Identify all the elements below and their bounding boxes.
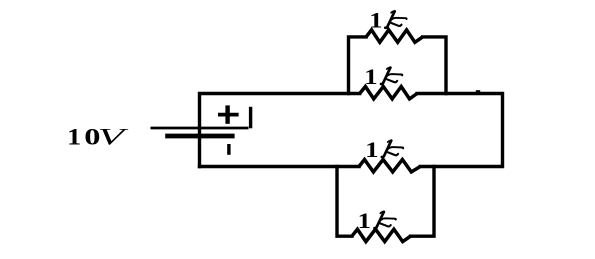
wire: top-right main, right vertical, bottom-right main <box>417 94 502 167</box>
wire: left vertical (battery branch) plus top-left main wire <box>200 94 360 167</box>
svg-text:1: 1 <box>369 8 383 33</box>
resistor R2 zigzag (top main wire, 1k) <box>360 87 417 99</box>
wire: bottom bump left vertical and lead to R4 <box>337 167 352 237</box>
svg-text:1: 1 <box>364 64 378 89</box>
battery V1 plate short thick (negative) <box>165 134 234 139</box>
wire: top bump left vertical and lead to R1 <box>349 37 367 94</box>
junction nub on top wire <box>476 90 480 93</box>
svg-text:1: 1 <box>358 208 372 233</box>
resistor R4 zigzag (bottom bump, 1k) <box>352 229 411 241</box>
wire: bottom bump right lead and right vertical <box>411 167 435 237</box>
wire: top bump right lead and right vertical <box>423 37 446 94</box>
label 1k for R1 <box>369 8 406 33</box>
svg-text:1: 1 <box>67 124 81 150</box>
label 1k for R4 <box>358 208 396 233</box>
label 1k for R3 <box>365 137 403 162</box>
battery plus sign <box>218 105 239 123</box>
svg-text:1: 1 <box>365 137 379 162</box>
battery minus sign (vertical tick) <box>227 144 230 155</box>
wire: bottom-left main <box>200 165 360 168</box>
label 10V (source voltage) <box>67 124 129 150</box>
resistor R3 zigzag (bottom main wire, 1k) <box>359 160 420 172</box>
battery positive terminal stub <box>249 107 252 129</box>
battery V1 plate long thin (positive) <box>151 127 249 130</box>
resistor R1 zigzag (top bump, 1k) <box>366 30 422 42</box>
label 1k for R2 <box>364 64 402 89</box>
